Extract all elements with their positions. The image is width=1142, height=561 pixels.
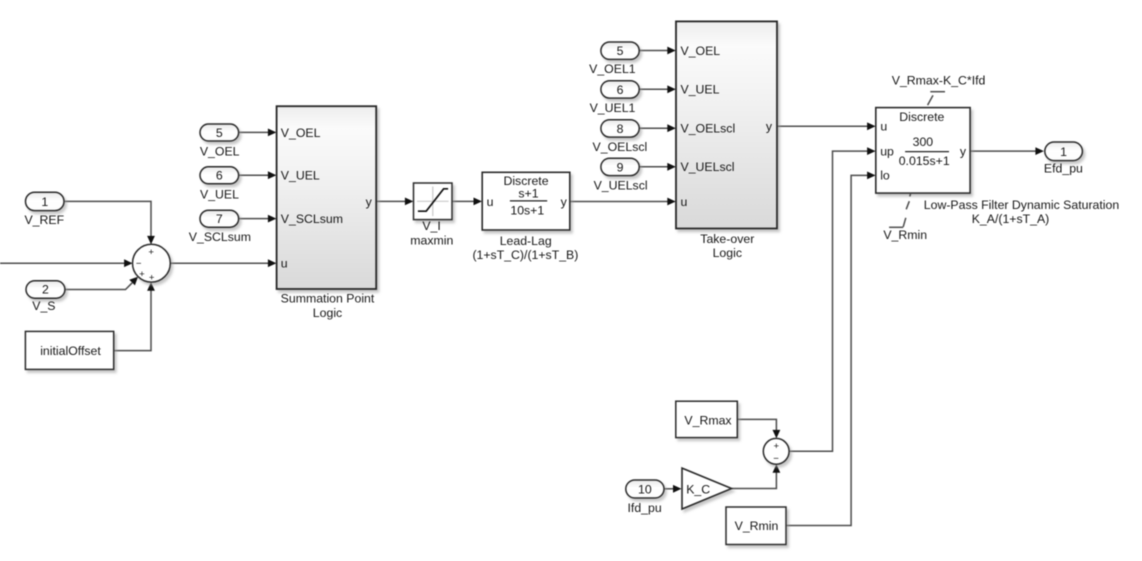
wire from left edge into sum1	[0, 259, 133, 267]
inport 9	[601, 158, 639, 175]
svg-text:V_UEL1: V_UEL1	[590, 101, 636, 115]
svg-text:y: y	[366, 195, 373, 209]
svg-text:V_Rmin: V_Rmin	[883, 228, 927, 242]
inport 2	[26, 281, 65, 298]
svg-text:10: 10	[638, 482, 652, 496]
inport 6	[200, 167, 239, 184]
svg-text:V_OEL: V_OEL	[281, 126, 321, 140]
sum junction sum1	[133, 244, 171, 283]
svg-text:V_OEL: V_OEL	[200, 145, 240, 159]
V_Rmax constant	[676, 401, 738, 437]
inport 5	[200, 124, 239, 141]
svg-text:u: u	[681, 195, 688, 209]
wire inport5b to TakeOver V_OEL	[639, 47, 676, 55]
svg-text:Lead-Lag: Lead-Lag	[500, 234, 552, 248]
wire K_C to sum2 bottom	[732, 464, 781, 488]
gain K_C	[682, 468, 732, 509]
wire saturation to LeadLag	[452, 198, 482, 206]
svg-text:6: 6	[216, 169, 223, 183]
svg-text:0.015s+1: 0.015s+1	[899, 154, 950, 168]
wire inport6 to V_UEL	[239, 171, 277, 179]
inport 1	[26, 192, 65, 210]
inport 7	[200, 210, 239, 227]
svg-text:u: u	[880, 120, 887, 134]
wire Summation y to saturation	[376, 198, 413, 206]
svg-text:K_A/(1+sT_A): K_A/(1+sT_A)	[972, 212, 1050, 226]
svg-text:Efd_pu: Efd_pu	[1044, 161, 1083, 175]
svg-text:V_I: V_I	[422, 219, 440, 233]
wire inport10 to K_C	[664, 485, 682, 493]
wire inport2 to sum1 lower-left	[65, 277, 138, 290]
svg-text:(1+sT_C)/(1+sT_B): (1+sT_C)/(1+sT_B)	[472, 248, 578, 262]
wire initialOffset to sum1 bottom	[114, 282, 155, 350]
wire inport7 to V_SCLsum	[239, 215, 277, 223]
svg-text:Discrete: Discrete	[899, 110, 944, 124]
wire LeadLag to TakeOver u	[570, 198, 676, 206]
svg-text:9: 9	[617, 161, 624, 175]
svg-text:V_OELscl: V_OELscl	[681, 122, 736, 136]
wire V_Rmax to sum2 top	[737, 419, 780, 438]
wire TakeOver y to LPF u	[777, 122, 876, 130]
svg-text:+: +	[148, 247, 154, 258]
svg-text:V_UELscl: V_UELscl	[681, 160, 735, 174]
svg-text:V_UEL: V_UEL	[200, 188, 239, 202]
svg-text:10s+1: 10s+1	[510, 203, 544, 217]
outport 1	[1045, 142, 1083, 161]
svg-text:lo: lo	[880, 169, 890, 183]
wire sum2 to LPF up	[789, 147, 876, 451]
svg-text:V_Rmax-K_C*Ifd: V_Rmax-K_C*Ifd	[892, 73, 986, 87]
wire inport1 to sum1 top	[64, 201, 155, 244]
wire LPF y to outport	[970, 147, 1044, 155]
svg-text:5: 5	[617, 44, 624, 58]
svg-text:V_OEL: V_OEL	[681, 44, 721, 58]
svg-text:7: 7	[216, 212, 223, 226]
svg-text:V_OELscl: V_OELscl	[593, 140, 648, 154]
annotation connector top	[928, 92, 945, 105]
svg-text:1: 1	[41, 195, 48, 209]
svg-text:V_SCLsum: V_SCLsum	[189, 230, 251, 244]
Lead-Lag block	[482, 172, 570, 230]
saturation block	[414, 183, 453, 220]
svg-text:u: u	[281, 257, 288, 271]
inport 8	[601, 120, 639, 137]
svg-text:maxmin: maxmin	[410, 233, 453, 247]
svg-text:V_OEL1: V_OEL1	[589, 62, 636, 76]
inport 5b	[601, 42, 639, 59]
svg-text:up: up	[880, 144, 894, 158]
svg-text:−: −	[773, 453, 779, 464]
svg-text:V_SCLsum: V_SCLsum	[281, 212, 343, 226]
svg-text:Low-Pass Filter Dynamic Satura: Low-Pass Filter Dynamic Saturation	[924, 198, 1120, 212]
wire inport5 to V_OEL	[239, 129, 277, 137]
wire inport8 to TakeOver V_OELscl	[639, 124, 676, 132]
svg-text:8: 8	[617, 122, 624, 136]
svg-text:initialOffset: initialOffset	[40, 344, 101, 358]
svg-text:+: +	[149, 272, 155, 283]
wire inport6b to TakeOver V_UEL	[639, 85, 676, 93]
svg-text:V_UEL: V_UEL	[281, 169, 320, 183]
svg-text:1: 1	[1060, 145, 1067, 159]
svg-text:y: y	[960, 144, 967, 158]
svg-text:K_C: K_C	[686, 482, 710, 496]
svg-text:Logic: Logic	[313, 306, 342, 320]
V_Rmin constant	[726, 507, 786, 545]
wire sum1 to Summation u	[170, 259, 276, 267]
Low-Pass Filter block	[876, 108, 970, 194]
inport 10	[626, 480, 664, 498]
svg-text:y: y	[766, 120, 773, 134]
initialOffset constant	[25, 331, 113, 369]
svg-text:y: y	[561, 195, 568, 209]
svg-text:2: 2	[42, 283, 49, 297]
svg-text:V_UELscl: V_UELscl	[594, 179, 648, 193]
svg-text:Take-over: Take-over	[700, 232, 754, 246]
wire V_Rmin to LPF lo	[786, 172, 876, 526]
inport 6b	[601, 81, 639, 98]
svg-text:V_Rmax: V_Rmax	[684, 413, 732, 427]
svg-text:Ifd_pu: Ifd_pu	[627, 501, 661, 515]
svg-text:V_REF: V_REF	[24, 213, 64, 227]
svg-text:6: 6	[617, 83, 624, 97]
svg-text:300: 300	[913, 135, 934, 149]
svg-text:+: +	[773, 441, 779, 452]
svg-text:V_Rmin: V_Rmin	[735, 519, 779, 533]
Summation Point Logic subsystem	[277, 106, 377, 289]
annotation connector bottom	[889, 193, 911, 227]
svg-text:5: 5	[216, 126, 223, 140]
svg-text:V_S: V_S	[32, 299, 55, 313]
Take-over Logic subsystem	[676, 21, 777, 228]
svg-text:+: +	[139, 269, 145, 280]
wire inport9 to TakeOver V_UELscl	[639, 163, 676, 171]
svg-text:Summation Point: Summation Point	[281, 292, 375, 306]
svg-text:s+1: s+1	[518, 187, 538, 201]
svg-text:u: u	[487, 195, 494, 209]
sum junction sum2	[763, 438, 789, 464]
svg-text:V_UEL: V_UEL	[681, 83, 720, 97]
svg-text:Logic: Logic	[713, 246, 742, 260]
